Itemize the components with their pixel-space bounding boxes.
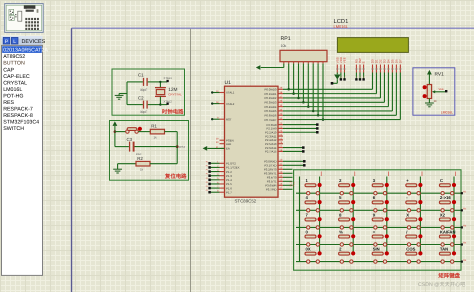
svg-text:C: C [440,178,443,183]
svg-text:RST: RST [179,145,185,149]
svg-text:D7: D7 [398,59,402,63]
svg-text:LM016L: LM016L [441,110,453,114]
svg-text:矩阵键盘: 矩阵键盘 [437,273,460,280]
svg-text:P2: P2 [344,76,347,78]
svg-text:DEVICES: DEVICES [22,39,46,45]
svg-text:E: E [362,61,366,63]
svg-text:VEE: VEE [439,88,444,91]
svg-text:STC89C52: STC89C52 [235,199,257,204]
svg-text:RESPACK-7: RESPACK-7 [3,107,33,113]
svg-text:R2: R2 [137,156,143,161]
svg-text:CAP: CAP [3,67,14,73]
svg-text:RESPACK-8: RESPACK-8 [3,113,33,119]
svg-text:RP1: RP1 [281,36,291,42]
svg-text:30pF: 30pF [140,110,147,114]
svg-text:10k: 10k [281,44,287,48]
svg-text:RST: RST [226,117,232,121]
svg-text:SWITCH: SWITCH [3,126,24,132]
svg-text:RES: RES [3,100,14,106]
svg-text:P0.7/AD7: P0.7/AD7 [265,118,277,122]
svg-text:C2: C2 [138,95,144,100]
svg-text:1k: 1k [434,99,438,103]
svg-text:RV1: RV1 [435,72,445,78]
svg-text:X2: X2 [440,212,446,217]
svg-text:EA: EA [226,147,230,151]
svg-text:P1.7: P1.7 [226,190,232,194]
svg-text:L: L [13,39,16,45]
svg-text:P2: P2 [355,76,358,78]
svg-text:时钟电路: 时钟电路 [162,109,184,116]
svg-text:CRYSTAL: CRYSTAL [168,93,182,97]
svg-text:C1: C1 [138,73,144,78]
svg-text:X: X [406,212,409,217]
svg-text:P2.7/A15: P2.7/A15 [265,150,277,154]
svg-text:CAP-ELEC: CAP-ELEC [3,74,30,80]
svg-text:TAN: TAN [440,247,448,252]
svg-text:U1: U1 [225,80,232,86]
svg-text:ALE: ALE [226,142,231,146]
svg-text:LM016L: LM016L [334,24,349,29]
svg-text:C3: C3 [127,137,133,142]
svg-text:CRYSTAL: CRYSTAL [3,80,27,86]
svg-text:2->16: 2->16 [440,195,451,200]
svg-text:KAIFAN: KAIFAN [440,229,456,234]
svg-text:VEE: VEE [343,57,347,63]
svg-text:LM016L: LM016L [3,87,22,93]
svg-text:30pF: 30pF [140,88,147,92]
svg-text:BUTTON: BUTTON [3,61,25,67]
svg-text:P2: P2 [363,76,366,78]
svg-text:复位电路: 复位电路 [164,173,187,180]
svg-text:XTAL1: XTAL1 [164,76,173,80]
svg-text:0X: 0X [306,247,311,252]
svg-text:XTAL1: XTAL1 [226,91,235,95]
svg-text:P3.7/RD: P3.7/RD [266,188,277,192]
svg-text:P1.1: P1.1 [293,181,296,187]
svg-text:%: % [339,229,343,234]
svg-text:SIN: SIN [373,247,380,252]
svg-text:STM32F103C4: STM32F103C4 [3,120,39,126]
svg-text:1k: 1k [140,167,144,171]
svg-text:02013A0R5CAT2A: 02013A0R5CAT2A [3,48,48,54]
svg-text:P2: P2 [359,76,362,78]
svg-text:POT-HG: POT-HG [3,93,23,99]
svg-text:XTAL2: XTAL2 [164,100,173,104]
svg-text:1k: 1k [154,136,158,140]
svg-text:P2: P2 [340,76,343,78]
svg-text:COS: COS [406,247,415,252]
svg-text:R1: R1 [151,123,157,128]
svg-text:AT89C52: AT89C52 [3,54,25,60]
svg-text:XTAL2: XTAL2 [226,102,235,106]
svg-text:CSDN @天天开心吧: CSDN @天天开心吧 [418,281,466,288]
